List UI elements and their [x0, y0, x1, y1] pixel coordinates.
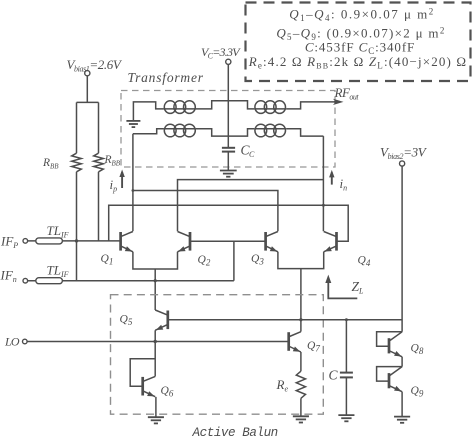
junction crossing blob	[75, 239, 78, 242]
transistor Q6	[143, 376, 156, 396]
resistor RBB left	[72, 153, 82, 172]
svg-text:Transformer: Transformer	[128, 70, 204, 85]
wire CC to ground	[227, 152, 229, 171]
label in	[340, 176, 348, 193]
wire base bus IFp	[109, 205, 349, 241]
wire top winding right end	[286, 102, 336, 109]
transformer box	[121, 91, 335, 168]
ground Q9	[394, 417, 410, 423]
transistor Q9	[389, 367, 402, 392]
wire Vbias2 down	[401, 166, 403, 332]
label Active Balun	[192, 426, 278, 438]
capacitor C plates	[340, 373, 353, 378]
tline TLIF lower box	[36, 278, 63, 284]
label IFp	[0, 234, 18, 251]
inductor bottom-left coil	[164, 124, 195, 137]
label RFout	[334, 85, 360, 102]
wire RBB right top lead	[98, 102, 100, 153]
wire Q8 loop	[377, 332, 403, 346]
label ZL	[352, 279, 365, 296]
ground transformer left	[126, 121, 140, 127]
svg-text:Re​:4.2 Ω RBB​:2k Ω ZL​:(40−: Re​:4.2 Ω RBB​:2k Ω ZL​:(40−j×20) Ω	[248, 54, 467, 71]
junction C on bias line	[345, 318, 348, 321]
label Q3	[251, 253, 264, 267]
svg-text:C: C	[329, 368, 339, 383]
wire Q6 emitter to ground	[155, 397, 157, 417]
wire IFn riser	[233, 241, 235, 280]
inductor top-right coil	[255, 101, 286, 114]
wire Q1 Q2 emitter bus	[133, 252, 178, 269]
wire C stem	[345, 320, 347, 373]
wire Q6 base-collector loop	[130, 359, 155, 386]
junction Q5 emitter LO node	[154, 340, 157, 343]
wire in vertical	[322, 136, 324, 231]
wire ip to Q3 collector	[133, 191, 278, 232]
wire Vbias1 bar	[77, 101, 99, 103]
ground C	[338, 415, 354, 421]
transistor Q1	[121, 232, 133, 252]
inductor top-right baseline	[254, 108, 286, 110]
label Q8	[411, 343, 424, 357]
wire Vbias1 stem	[86, 76, 88, 103]
wire Re to ground	[300, 398, 302, 416]
transistor Q7	[289, 332, 301, 352]
spec text line4 Re RBB ZL values	[248, 54, 467, 71]
ground Q6	[148, 417, 164, 423]
wire VC down to CC	[227, 64, 229, 147]
node ip line junction	[132, 189, 135, 192]
terminal IFn	[23, 278, 28, 283]
wire primary left end to ground	[133, 102, 163, 121]
tline TLIF upper box	[36, 238, 63, 244]
label Q6	[161, 385, 174, 399]
wire RBB right to IFp line	[98, 172, 100, 241]
label Q2	[198, 254, 211, 268]
wire Q3 Q4 emitter bus	[278, 252, 324, 269]
transistor Q3	[266, 232, 278, 252]
spec text line2 Q5-Q9 size	[276, 26, 445, 43]
transistor Q8	[389, 332, 402, 357]
ground CC	[220, 171, 237, 177]
wire Q7 emitter to Re	[300, 352, 302, 371]
wire top center tap plateau	[196, 101, 254, 109]
label CC	[241, 143, 256, 160]
RFout arrow	[333, 99, 344, 105]
terminal VC	[226, 59, 231, 64]
transistor Q4	[324, 232, 337, 252]
transistor Q5	[155, 310, 168, 330]
wire tail1 to Q5	[154, 269, 156, 310]
node in bus crossing blob	[322, 204, 325, 207]
label Vbias1=2.6V	[67, 57, 123, 74]
label Q1	[101, 253, 114, 267]
label Q9	[411, 385, 424, 399]
label IFn	[0, 268, 17, 285]
wire ip vertical	[132, 134, 134, 231]
inductor bottom-left baseline	[164, 128, 196, 130]
wire Q2 collector to in	[178, 180, 324, 232]
label TLIF upper	[47, 223, 69, 240]
label ip	[110, 177, 118, 194]
label Q7	[307, 340, 320, 354]
spec box (component values)	[246, 3, 471, 82]
wire C to ground	[345, 377, 347, 414]
wire Q5 emitter down	[154, 330, 156, 376]
junction tail2 x bias line blob	[299, 318, 302, 321]
capacitor CC plates	[222, 148, 235, 152]
inductor bottom-right baseline	[254, 128, 286, 130]
annotation ZL arrow	[325, 275, 357, 299]
label RBB left	[42, 157, 59, 171]
wire Q8 emitter to Q9	[401, 357, 403, 367]
wire RBB left to IFn line	[76, 172, 78, 281]
wire Q9 loop	[377, 367, 403, 382]
label Re	[276, 377, 289, 394]
label VC=3.3V	[201, 45, 241, 61]
label LO	[4, 335, 20, 349]
svg-text:Vbias2​=3V: Vbias2​=3V	[380, 145, 428, 162]
resistor RBB right	[94, 153, 104, 172]
wire Q5 base bias line	[168, 319, 402, 321]
label Q4	[358, 255, 371, 269]
wire secondary left end	[133, 129, 164, 134]
terminal Vbias1	[85, 71, 90, 76]
wire Q9 emitter to ground	[401, 392, 403, 417]
label TLIF lower	[47, 263, 69, 280]
terminal IFp	[23, 239, 28, 244]
wire bottom center tap plateau	[196, 129, 254, 136]
annotation arrow in	[329, 170, 334, 185]
label Q5	[120, 314, 133, 328]
wire Q2 Q3 base tie	[190, 240, 266, 242]
inductor bottom-right coil	[255, 124, 286, 137]
spec text line1 Q1-Q4 size	[289, 7, 435, 24]
inductor top-left coil	[164, 101, 195, 114]
wire IFp line	[28, 240, 121, 242]
svg-text:Active Balun: Active Balun	[192, 426, 278, 438]
label Vbias2=3V	[380, 145, 428, 162]
svg-text:VC​=3.3V: VC​=3.3V	[201, 45, 241, 61]
spec text line3 C CC values	[305, 40, 415, 57]
terminal Vbias2	[400, 161, 405, 166]
active balun box	[111, 295, 324, 415]
label C	[329, 368, 339, 383]
label Transformer	[128, 70, 204, 85]
inductor top-left baseline	[164, 108, 196, 110]
svg-text:Q1​–Q4​: 0.9×0.07 μ m2: Q1​–Q4​: 0.9×0.07 μ m2	[289, 7, 435, 24]
svg-text:LO: LO	[4, 335, 20, 349]
label RBB right	[104, 154, 121, 168]
annotation arrow ip	[119, 170, 124, 189]
junction tail1 x IFn blob	[154, 279, 157, 282]
wire LO line	[27, 341, 289, 343]
ground Q7 Re	[293, 416, 309, 422]
terminal LO	[23, 339, 28, 344]
wire RBB left top lead	[76, 102, 78, 153]
wire tail2 to Q7	[300, 269, 302, 332]
resistor Re	[296, 371, 305, 398]
transistor Q2	[178, 232, 191, 252]
wire secondary right end	[286, 129, 323, 136]
wire IFn line	[28, 280, 234, 282]
